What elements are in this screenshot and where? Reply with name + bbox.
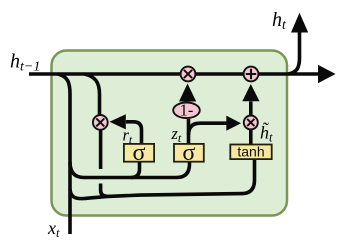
svg-text:1-: 1- (180, 100, 194, 119)
wire: h_t up branch (289, 32, 300, 74)
wire: h_t arrowhead up (291, 13, 308, 33)
wire: arrowhead into plus (242, 84, 259, 101)
op: multiply on main line (181, 67, 196, 82)
svg-text:ht: ht (272, 9, 287, 32)
wire: reset drop below multiply (99, 128, 103, 169)
wire: z arrowhead right (226, 116, 241, 131)
op: 1- ellipse (173, 103, 200, 119)
cell body (green rounded box) (52, 51, 288, 216)
wire: reset drop (h branch through multiply) (85, 74, 100, 116)
svg-text:ht−1: ht−1 (10, 51, 40, 75)
op: plus on main line (244, 67, 259, 82)
wire: main h line (29, 72, 321, 76)
op: reset multiply (93, 115, 108, 130)
wire: H2 bus branch to sigma boxes (70, 161, 190, 178)
wire: reset drop stub joining B bus (101, 184, 107, 197)
wire: tanh to h-tilde multiply link (249, 128, 253, 145)
wire: 1- to multiply arrow up (179, 84, 196, 102)
wire: bottom B bus to tanh (70, 159, 255, 199)
svg-text:σ: σ (133, 140, 146, 166)
wire: left drop + x_t channel (58, 74, 70, 234)
svg-text:tanh: tanh (237, 143, 264, 159)
wire: output arrowhead right (318, 65, 336, 83)
box: tanh (230, 145, 271, 160)
box: sigma1 (reset gate) (124, 144, 154, 162)
wire: h-tilde multiply to plus (249, 102, 253, 118)
wire: z branch right to multiply (189, 123, 227, 135)
svg-text:xt: xt (47, 218, 60, 240)
wire: z stem from sigma2 (187, 119, 191, 145)
op: h-tilde multiply (244, 116, 258, 130)
wire: r loop from sigma1 to multiply (126, 122, 142, 145)
wire: r arrowhead left (110, 114, 126, 129)
box: sigma2 (update gate) (174, 144, 204, 162)
wire: sigma1 stub (131, 161, 140, 178)
svg-text:σ: σ (182, 140, 195, 166)
